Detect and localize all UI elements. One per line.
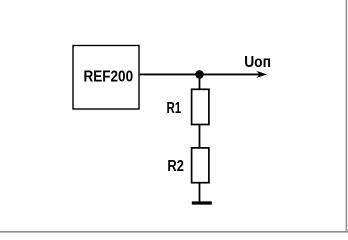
svg-text:REF200: REF200 bbox=[84, 69, 134, 86]
svg-text:R2: R2 bbox=[167, 158, 184, 175]
node junction dot bbox=[195, 70, 204, 79]
wire node to arrow bbox=[200, 73, 261, 75]
resistor R2 bbox=[192, 148, 209, 183]
ground bbox=[192, 201, 212, 204]
svg-text:R1: R1 bbox=[167, 100, 182, 117]
wire R1 to R2 bbox=[199, 125, 201, 148]
IC U1 REF200 box bbox=[73, 46, 139, 110]
wire box output to node bbox=[140, 73, 200, 75]
wire R2 to ground bbox=[199, 183, 201, 202]
arrowhead Uop output bbox=[256, 71, 267, 78]
frame border right bbox=[345, 0, 347, 233]
resistor R1 bbox=[192, 89, 209, 124]
svg-text:Uоп: Uоп bbox=[244, 54, 271, 71]
frame border bottom bbox=[0, 231, 348, 233]
wire node to R1 bbox=[199, 74, 201, 89]
